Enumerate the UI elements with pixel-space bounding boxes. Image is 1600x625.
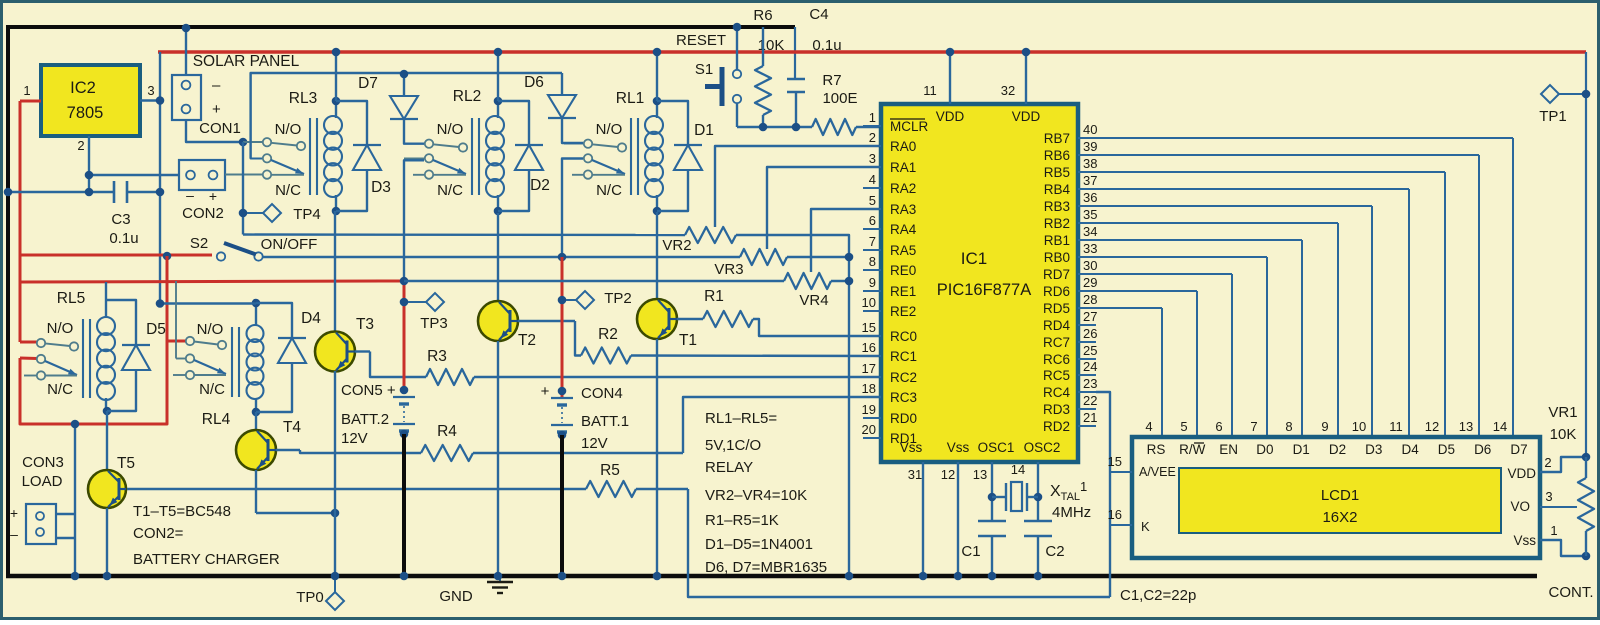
diode D4 across RL4 coil bbox=[256, 303, 292, 338]
connector CON2 battery charger input bbox=[179, 160, 225, 190]
diode D6 bbox=[561, 73, 563, 95]
wire IC1 pin18 long route down to R4 bbox=[683, 397, 881, 453]
test point TP4 bbox=[239, 209, 248, 218]
svg-text:37: 37 bbox=[1083, 173, 1097, 188]
contacts RL3 N/C row bbox=[263, 170, 271, 178]
relay RL2 coil bbox=[471, 118, 473, 195]
node IC2 pin3 bbox=[156, 96, 165, 105]
svg-text:8: 8 bbox=[869, 254, 876, 269]
svg-text:1: 1 bbox=[1550, 523, 1557, 538]
node C4 bottom bbox=[792, 123, 801, 132]
node RL4 coil bottom bbox=[252, 408, 261, 417]
svg-text:T4: T4 bbox=[283, 419, 301, 436]
node CON1/RL3 bbox=[239, 138, 248, 147]
svg-text:RC3: RC3 bbox=[890, 390, 917, 405]
wire red to CON5 battery bbox=[403, 281, 406, 390]
svg-text:100E: 100E bbox=[822, 90, 857, 107]
wire S2 output line to VR3 bbox=[262, 256, 740, 258]
svg-text:RS: RS bbox=[1147, 442, 1166, 457]
svg-text:D6: D6 bbox=[1474, 442, 1491, 457]
wire RL2 pole feed down to red node bbox=[404, 160, 424, 281]
transistor T4 bbox=[255, 412, 257, 430]
IC1 pin 30 RD7 bbox=[1078, 273, 1096, 275]
svg-text:33: 33 bbox=[1083, 241, 1097, 256]
IC1 VDD pin 32 bbox=[1025, 52, 1027, 104]
svg-text:T1: T1 bbox=[679, 332, 697, 349]
svg-text:N/O: N/O bbox=[437, 121, 464, 138]
svg-text:S2: S2 bbox=[190, 235, 208, 252]
svg-text:IC1: IC1 bbox=[961, 249, 987, 268]
svg-text:VO: VO bbox=[1510, 499, 1530, 514]
crystal XTAL1 4MHz bbox=[988, 493, 997, 502]
wire T2 base to R2 bbox=[518, 320, 575, 322]
IC1 pin 2 RA0 bbox=[863, 145, 881, 147]
svg-text:2: 2 bbox=[1544, 455, 1551, 470]
svg-text:9: 9 bbox=[869, 275, 876, 290]
svg-text:N/O: N/O bbox=[47, 320, 74, 337]
svg-text:RL1–RL5=: RL1–RL5= bbox=[705, 410, 777, 427]
node RL4 coil top bbox=[252, 299, 261, 308]
contacts RL4 N/C bbox=[173, 374, 186, 376]
svg-text:34: 34 bbox=[1083, 224, 1097, 239]
svg-text:RB6: RB6 bbox=[1044, 148, 1070, 163]
svg-text:Vss: Vss bbox=[1513, 533, 1536, 548]
svg-text:38: 38 bbox=[1083, 156, 1097, 171]
diode D7 bbox=[403, 74, 405, 96]
node RL2 coil bottom bbox=[494, 207, 503, 216]
wire LCD Vss pin1 to VR1 bottom bbox=[1540, 540, 1586, 556]
svg-text:27: 27 bbox=[1083, 309, 1097, 324]
svg-text:D1–D5=1N4001: D1–D5=1N4001 bbox=[705, 536, 813, 553]
svg-text:36: 36 bbox=[1083, 190, 1097, 205]
svg-text:3: 3 bbox=[1545, 489, 1552, 504]
svg-text:RB0: RB0 bbox=[1044, 250, 1070, 265]
IC1 pin 6 RA4 bbox=[863, 228, 881, 230]
IC1 pin 21 RD2 bbox=[1078, 425, 1096, 427]
contacts RL1 N/C row bbox=[572, 174, 583, 176]
wire IC1 pin 28 to LCD RS bbox=[1096, 307, 1162, 309]
svg-text:10K: 10K bbox=[758, 37, 785, 54]
svg-text:7: 7 bbox=[869, 234, 876, 249]
svg-text:BATT.1: BATT.1 bbox=[581, 413, 629, 430]
IC1 pin 8 RE0 bbox=[863, 269, 881, 271]
svg-text:T5: T5 bbox=[117, 455, 135, 472]
node battery grounds on bus bbox=[400, 572, 409, 581]
svg-text:RL1: RL1 bbox=[616, 90, 644, 107]
svg-text:32: 32 bbox=[1001, 83, 1015, 98]
svg-text:D7: D7 bbox=[1510, 442, 1527, 457]
capacitor C3 bbox=[8, 191, 114, 193]
resistor R5 bbox=[586, 481, 636, 497]
wire CON1 plus to relay RL3 N/O bbox=[186, 120, 243, 142]
IC1 pin 3 RA1 bbox=[863, 166, 881, 168]
wire D7 to RL2 N/O bbox=[404, 140, 424, 144]
svg-text:RD0: RD0 bbox=[890, 411, 917, 426]
wire VR3 wiper from IC pin3 bbox=[767, 167, 881, 249]
svg-text:–: – bbox=[212, 77, 221, 94]
svg-text:RD6: RD6 bbox=[1043, 284, 1070, 299]
relay RL3 coil bbox=[309, 118, 311, 195]
svg-text:R4: R4 bbox=[437, 423, 457, 440]
resistor R2 bbox=[581, 348, 631, 364]
wire OSC1 column bbox=[991, 462, 993, 521]
red stub RL4 N/O bbox=[167, 340, 186, 343]
svg-text:40: 40 bbox=[1083, 122, 1097, 137]
wire IC2 pin2 down bbox=[88, 136, 90, 192]
node C3 right bbox=[156, 188, 165, 197]
contacts RL2 N/O row bbox=[405, 143, 424, 145]
transistor T5 bbox=[106, 411, 108, 470]
IC1 pin 4 RA2 bbox=[863, 187, 881, 189]
resistor R3 bbox=[426, 369, 474, 385]
IC1 pin 18 RC3 bbox=[863, 396, 881, 398]
svg-text:+: + bbox=[209, 188, 217, 204]
svg-text:VDD: VDD bbox=[936, 109, 965, 124]
svg-text:RL5: RL5 bbox=[57, 290, 85, 307]
svg-text:N/O: N/O bbox=[596, 121, 623, 138]
svg-text:1: 1 bbox=[23, 83, 30, 98]
wire IC1 Vss pin31 to ground bbox=[922, 462, 924, 576]
svg-text:RE0: RE0 bbox=[890, 263, 916, 278]
svg-text:D4: D4 bbox=[1401, 442, 1419, 457]
contacts RL4 pole and blade bbox=[175, 281, 177, 359]
svg-text:N/O: N/O bbox=[197, 321, 224, 338]
svg-text:VDD: VDD bbox=[1507, 466, 1536, 481]
svg-text:3: 3 bbox=[869, 151, 876, 166]
node S2 battery1 column bbox=[558, 253, 567, 262]
svg-text:RB3: RB3 bbox=[1044, 199, 1070, 214]
svg-text:16: 16 bbox=[1108, 507, 1122, 522]
contacts RL1 pole and blade bbox=[563, 158, 583, 160]
node RL1 on red bus bbox=[653, 48, 662, 57]
svg-text:CON3: CON3 bbox=[22, 454, 64, 471]
svg-text:RC2: RC2 bbox=[890, 370, 917, 385]
node RL3 coil top bbox=[332, 97, 341, 106]
wire T1 base to R1 bbox=[677, 318, 703, 320]
wire R5 right to under-bus route bbox=[636, 488, 688, 490]
svg-text:5: 5 bbox=[869, 193, 876, 208]
wire RL2 coil top to red bus bbox=[497, 52, 499, 101]
diode D5 across RL5 coil bbox=[106, 300, 136, 345]
node CON1 top on black line bbox=[182, 24, 191, 33]
svg-text:CON4: CON4 bbox=[581, 385, 623, 402]
wire RL1 coil top to red bus bbox=[656, 52, 658, 101]
IC1 pin 40 RB7 bbox=[1078, 137, 1096, 139]
wire IC1 pin 37 to LCD D4 bbox=[1096, 188, 1409, 190]
svg-text:11: 11 bbox=[1389, 419, 1403, 434]
node C3 left on frame bbox=[4, 188, 13, 197]
svg-text:RB7: RB7 bbox=[1044, 131, 1070, 146]
contacts RL3 N/O row bbox=[243, 141, 262, 143]
wire LCD VDD pin2 to VR1 top bbox=[1540, 457, 1586, 472]
svg-text:OSC2: OSC2 bbox=[1024, 440, 1061, 455]
node pin2/C3 junction bbox=[85, 171, 94, 180]
svg-text:15: 15 bbox=[862, 320, 876, 335]
svg-text:R1: R1 bbox=[704, 288, 724, 305]
svg-text:CON1: CON1 bbox=[199, 120, 241, 137]
svg-text:4: 4 bbox=[869, 172, 876, 187]
wire IC1 pin 34 to LCD D1 bbox=[1096, 239, 1302, 241]
wire T4 base to R4 bbox=[276, 449, 300, 451]
svg-text:10K: 10K bbox=[1550, 426, 1577, 443]
svg-text:RB5: RB5 bbox=[1044, 165, 1070, 180]
battery CON4 BATT.1 bbox=[558, 387, 567, 396]
diode D3 across RL3 coil bbox=[336, 101, 367, 145]
svg-text:RA1: RA1 bbox=[890, 160, 916, 175]
svg-text:RL3: RL3 bbox=[289, 90, 317, 107]
contacts RL2 N/C row bbox=[413, 174, 424, 176]
resistor R1 bbox=[703, 311, 753, 327]
svg-text:VR4: VR4 bbox=[799, 292, 828, 309]
svg-text:10: 10 bbox=[1352, 419, 1366, 434]
svg-text:RB2: RB2 bbox=[1044, 216, 1070, 231]
svg-text:14: 14 bbox=[1011, 462, 1025, 477]
IC1 pin 36 RB3 bbox=[1078, 205, 1096, 207]
wire CON5 negative to ground bus (black) bbox=[402, 434, 406, 576]
svg-text:MCLR: MCLR bbox=[890, 119, 929, 134]
ground bus GND (bottom black line) bbox=[6, 574, 1537, 579]
node CON3 top on red edge bbox=[71, 420, 80, 429]
svg-text:R7: R7 bbox=[822, 72, 841, 89]
connector CON1 solar panel bbox=[172, 75, 201, 120]
IC1 pin 29 RD6 bbox=[1078, 290, 1096, 292]
relay RL5 coil bbox=[82, 319, 84, 398]
svg-text:RE1: RE1 bbox=[890, 284, 916, 299]
svg-text:D3: D3 bbox=[371, 179, 391, 196]
IC1 pin 35 RB2 bbox=[1078, 222, 1096, 224]
svg-text:TP3: TP3 bbox=[420, 315, 448, 332]
node 5V column bottom bbox=[156, 299, 165, 308]
connector CON3 LOAD bbox=[26, 504, 56, 544]
svg-text:R6: R6 bbox=[753, 7, 772, 24]
svg-text:24: 24 bbox=[1083, 359, 1097, 374]
wire IC1 pin 35 to LCD D2 bbox=[1096, 222, 1338, 224]
svg-text:C4: C4 bbox=[809, 6, 828, 23]
wire right edge vertical from red bus to VR1 bbox=[1585, 52, 1587, 457]
test point TP0 bbox=[331, 572, 340, 581]
svg-text:RA3: RA3 bbox=[890, 202, 916, 217]
svg-text:R2: R2 bbox=[598, 326, 618, 343]
contacts RL1 N/O row bbox=[564, 143, 583, 145]
svg-text:D2: D2 bbox=[530, 177, 550, 194]
svg-text:D3: D3 bbox=[1365, 442, 1382, 457]
svg-text:1: 1 bbox=[869, 110, 876, 125]
svg-text:5: 5 bbox=[1180, 419, 1187, 434]
svg-text:20: 20 bbox=[862, 422, 876, 437]
transistor T2 bbox=[497, 213, 499, 301]
svg-text:3: 3 bbox=[147, 83, 154, 98]
wire under-bus route R5 to pin23 bbox=[688, 489, 1110, 597]
wire CON1 minus up to frame bbox=[185, 28, 187, 75]
node RL5 coil bottom bbox=[103, 407, 112, 416]
svg-text:9: 9 bbox=[1321, 419, 1328, 434]
contacts RL5 N/O bbox=[37, 339, 45, 347]
wire CON3 pins to junction bbox=[56, 513, 75, 515]
IC1 pin 38 RB5 bbox=[1078, 171, 1096, 173]
svg-text:5V,1C/O: 5V,1C/O bbox=[705, 437, 761, 454]
test point TP3 bbox=[400, 298, 409, 307]
wire OSC2 column bbox=[1037, 462, 1039, 521]
svg-text:29: 29 bbox=[1083, 275, 1097, 290]
wire black top corner down to C4 bbox=[794, 27, 796, 79]
svg-text:18: 18 bbox=[862, 381, 876, 396]
IC1 pin 9 RE1 bbox=[863, 290, 881, 292]
svg-text:R3: R3 bbox=[427, 348, 447, 365]
svg-text:25: 25 bbox=[1083, 343, 1097, 358]
svg-text:CON2=: CON2= bbox=[133, 525, 184, 542]
node RL1 coil top bbox=[653, 97, 662, 106]
node S1 on black line bbox=[733, 23, 742, 32]
black top line to reset circuit bbox=[6, 25, 795, 29]
red stub RL5 pole bbox=[20, 357, 37, 361]
svg-text:OSC1: OSC1 bbox=[978, 440, 1015, 455]
svg-text:SOLAR PANEL: SOLAR PANEL bbox=[193, 53, 300, 70]
wire IC1 pin 40 to LCD D7 bbox=[1096, 137, 1513, 139]
wire red vertical from IC2 pin1 down bbox=[19, 101, 22, 256]
diode D1 across RL1 coil bbox=[657, 101, 688, 145]
contacts RL3 pole and blade bbox=[251, 73, 262, 159]
reset line to MCLR bbox=[737, 126, 812, 128]
capacitor C1 bbox=[978, 520, 1006, 522]
svg-text:Vss: Vss bbox=[900, 440, 923, 455]
svg-text:+: + bbox=[10, 505, 18, 521]
wire R3 to IC pin17 bbox=[474, 376, 881, 378]
node D7 top bbox=[400, 70, 409, 79]
contacts RL2 pole and blade bbox=[404, 158, 424, 160]
svg-text:16X2: 16X2 bbox=[1322, 509, 1357, 526]
wire R2 to IC pin16 bbox=[631, 354, 881, 357]
svg-text:D1: D1 bbox=[694, 122, 714, 139]
svg-text:RELAY: RELAY bbox=[705, 459, 753, 476]
wire IC1 pin 33 to LCD D0 bbox=[1096, 256, 1267, 258]
svg-text:13: 13 bbox=[1459, 419, 1473, 434]
svg-text:14: 14 bbox=[1493, 419, 1507, 434]
wire IC1 pin 36 to LCD D3 bbox=[1096, 205, 1372, 207]
svg-text:31: 31 bbox=[908, 467, 922, 482]
IC1 pin 28 RD5 bbox=[1078, 307, 1096, 309]
wire VR4 right bbox=[831, 280, 849, 282]
IC1 pin 33 RB0 bbox=[1078, 256, 1096, 258]
svg-text:12V: 12V bbox=[581, 435, 608, 452]
wire VR2 right to collector column bbox=[736, 235, 849, 576]
svg-text:RC5: RC5 bbox=[1043, 368, 1070, 383]
wire CON3 junction column bbox=[74, 424, 76, 576]
wire VR4 wiper from IC pin5 bbox=[811, 209, 881, 272]
svg-text:30: 30 bbox=[1083, 258, 1097, 273]
svg-text:RB4: RB4 bbox=[1044, 182, 1071, 197]
IC1 pin 19 RD0 bbox=[863, 417, 881, 419]
capacitor C2 bbox=[1024, 520, 1052, 522]
svg-text:23: 23 bbox=[1083, 376, 1097, 391]
wire TP4 column bbox=[242, 142, 244, 235]
wire IC1 pin23 column bbox=[1096, 392, 1110, 597]
IC1 pin 20 RD1 bbox=[863, 437, 881, 439]
svg-text:RD3: RD3 bbox=[1043, 402, 1070, 417]
svg-text:RC7: RC7 bbox=[1043, 335, 1070, 350]
wire red to CON4 battery bbox=[561, 257, 564, 398]
wire IC1 pin 29 to LCD R/W bbox=[1096, 290, 1197, 292]
svg-text:R/W: R/W bbox=[1179, 442, 1206, 457]
voltage regulator IC2 7805 bbox=[41, 65, 140, 136]
wire T3 base to R3 bbox=[355, 350, 370, 352]
node RL2 coil top bbox=[494, 97, 503, 106]
svg-text:12: 12 bbox=[941, 467, 955, 482]
svg-text:10: 10 bbox=[862, 295, 876, 310]
IC1 pin 22 RD3 bbox=[1078, 408, 1096, 410]
svg-text:17: 17 bbox=[862, 361, 876, 376]
svg-text:22: 22 bbox=[1083, 393, 1097, 408]
contacts RL4 N/O bbox=[186, 337, 194, 345]
svg-text:28: 28 bbox=[1083, 292, 1097, 307]
wire CON4 negative to ground bus (black) bbox=[560, 435, 564, 576]
node VR3 junction bbox=[845, 253, 854, 262]
svg-text:19: 19 bbox=[862, 402, 876, 417]
svg-text:RESET: RESET bbox=[676, 32, 726, 49]
IC1 pin 16 RC1 bbox=[863, 355, 881, 357]
svg-text:12V: 12V bbox=[341, 430, 368, 447]
svg-text:0.1u: 0.1u bbox=[812, 37, 841, 54]
wire IC2 pin2 to CON2 bbox=[89, 174, 179, 176]
svg-text:T1–T5=BC548: T1–T5=BC548 bbox=[133, 503, 231, 520]
svg-text:N/O: N/O bbox=[275, 121, 302, 138]
svg-text:C1: C1 bbox=[961, 543, 980, 560]
svg-text:C3: C3 bbox=[111, 211, 130, 228]
svg-text:4: 4 bbox=[1145, 419, 1152, 434]
wire IC2 pin1 red to left rail bbox=[20, 100, 41, 103]
svg-text:VDD: VDD bbox=[1012, 109, 1041, 124]
svg-text:VR2: VR2 bbox=[662, 237, 691, 254]
svg-text:RD4: RD4 bbox=[1043, 318, 1070, 333]
svg-text:R5: R5 bbox=[600, 462, 620, 479]
wire 5V column x160 bbox=[159, 52, 161, 304]
red stub RL5 N/O bbox=[20, 341, 37, 344]
svg-text:R1–R5=1K: R1–R5=1K bbox=[705, 512, 779, 529]
svg-text:RD2: RD2 bbox=[1043, 419, 1070, 434]
svg-text:RA0: RA0 bbox=[890, 139, 916, 154]
svg-text:RA4: RA4 bbox=[890, 222, 917, 237]
svg-text:Vss: Vss bbox=[947, 440, 970, 455]
svg-text:GND: GND bbox=[439, 588, 473, 605]
svg-text:TP0: TP0 bbox=[296, 589, 324, 606]
wire LCD VO pin3 to VR1 wiper bbox=[1540, 506, 1577, 508]
contacts RL5 pole and blade bbox=[37, 355, 45, 363]
svg-text:C1,C2=22p: C1,C2=22p bbox=[1120, 587, 1196, 604]
battery CON5 BATT.2 bbox=[400, 386, 409, 395]
svg-text:RB1: RB1 bbox=[1044, 233, 1070, 248]
svg-text:D4: D4 bbox=[301, 310, 321, 327]
svg-text:CON2: CON2 bbox=[182, 205, 224, 222]
LCD R/W overline bbox=[1194, 442, 1204, 444]
test point TP2 bbox=[558, 296, 567, 305]
svg-text:N/C: N/C bbox=[47, 381, 73, 398]
svg-text:N/C: N/C bbox=[596, 182, 622, 199]
svg-text:TP2: TP2 bbox=[604, 290, 632, 307]
wire T4 emitter to T3 emitter column bbox=[256, 512, 335, 514]
svg-text:T3: T3 bbox=[356, 316, 374, 333]
node RL3 on red bus bbox=[332, 48, 341, 57]
svg-text:RA5: RA5 bbox=[890, 243, 916, 258]
svg-text:C2: C2 bbox=[1045, 543, 1064, 560]
transistor T1 bbox=[656, 212, 658, 299]
svg-text:VR1: VR1 bbox=[1548, 404, 1577, 421]
svg-text:–: – bbox=[186, 187, 194, 203]
svg-text:8: 8 bbox=[1285, 419, 1292, 434]
svg-text:15: 15 bbox=[1108, 454, 1122, 469]
LCD pin 16 K bbox=[1110, 524, 1132, 526]
svg-text:6: 6 bbox=[1215, 419, 1222, 434]
IC1 pin 34 RB1 bbox=[1078, 239, 1096, 241]
svg-text:RC0: RC0 bbox=[890, 329, 917, 344]
